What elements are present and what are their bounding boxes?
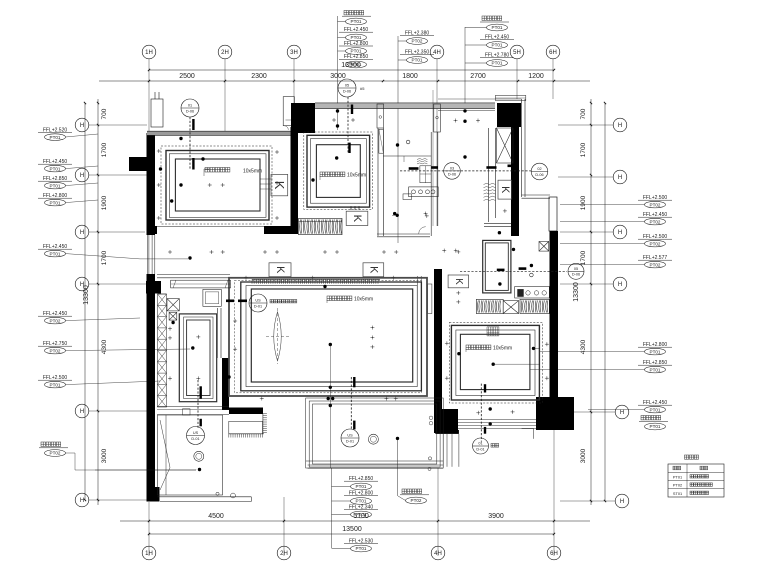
living room ceiling cove rect 1 bbox=[241, 282, 422, 391]
dining small x-box bbox=[169, 312, 177, 320]
balcony left wardrobe diagonal bbox=[160, 420, 170, 468]
bottom leader stack ceiling PT02 bbox=[397, 440, 399, 496]
svg-text:1700: 1700 bbox=[101, 142, 108, 157]
svg-text:1700: 1700 bbox=[580, 142, 587, 157]
svg-text:PT01: PT01 bbox=[50, 251, 61, 256]
wall dining right black strip bbox=[222, 358, 229, 410]
svg-text:1900: 1900 bbox=[101, 195, 108, 210]
grid bubble bottom 1 bbox=[142, 546, 156, 560]
grid bubble right E bbox=[615, 405, 629, 419]
entry outlined column bbox=[549, 197, 557, 231]
wall master bedroom left strip bbox=[291, 127, 299, 234]
svg-text:H: H bbox=[80, 173, 84, 179]
left leader stack FFL+2.850 bbox=[38, 176, 72, 189]
svg-text:PT02: PT02 bbox=[50, 318, 61, 323]
shaft x-brace box bbox=[497, 128, 514, 163]
entry steps bottom right quarter arc bbox=[522, 427, 534, 429]
top segment dimension line bbox=[99, 80, 590, 82]
svg-text:3000: 3000 bbox=[580, 448, 587, 463]
dining north wall bbox=[157, 274, 230, 276]
svg-text:PT01: PT01 bbox=[356, 499, 367, 504]
svg-text:PT01: PT01 bbox=[50, 183, 61, 188]
svg-text:K: K bbox=[351, 215, 363, 223]
svg-text:PT02: PT02 bbox=[50, 451, 61, 456]
balcony left boundary bbox=[158, 415, 223, 495]
downlights bedroom1 bbox=[179, 137, 182, 140]
svg-text:1H: 1H bbox=[145, 50, 153, 56]
svg-text:05: 05 bbox=[574, 267, 578, 271]
dining wardrobe counter bbox=[171, 280, 231, 288]
downlights balcony left bbox=[198, 468, 201, 471]
kitchen x-box vent right bbox=[539, 242, 549, 252]
svg-text:PT01: PT01 bbox=[356, 512, 367, 517]
downlight hall near dining bbox=[188, 256, 191, 259]
svg-text:PT02: PT02 bbox=[650, 202, 661, 207]
svg-text:10x5mm: 10x5mm bbox=[347, 173, 366, 179]
svg-text:PT01: PT01 bbox=[50, 382, 61, 387]
left leader stack ceiling PT02 bbox=[41, 442, 61, 446]
bedroom3 ceiling dashed outline bbox=[449, 322, 542, 403]
downlights bedroom3 bbox=[457, 352, 460, 355]
fan coil K box master bedroom bbox=[346, 211, 368, 225]
window band above kitchen corner bbox=[495, 95, 525, 100]
svg-text:01: 01 bbox=[188, 104, 192, 108]
svg-text:D-01: D-01 bbox=[476, 447, 484, 451]
squiggle hatches bathroom bbox=[417, 159, 427, 164]
right leader stack ceiling PT01 bbox=[641, 416, 661, 420]
bedroom3 ceiling inner panel bbox=[460, 334, 530, 389]
left overall dimension line 13300 bbox=[84, 103, 86, 500]
bath right door frame bbox=[434, 104, 441, 132]
sparkle hall row bbox=[323, 250, 327, 254]
svg-text:1800: 1800 bbox=[402, 73, 418, 80]
living room ceiling dashed line bbox=[235, 280, 422, 393]
dining ceiling inner panel bbox=[187, 320, 210, 396]
living room ceiling inner panel bbox=[251, 289, 412, 382]
grid bubble right C bbox=[613, 225, 627, 239]
wall corridor black foot bbox=[434, 409, 458, 433]
svg-text:2300: 2300 bbox=[251, 73, 267, 80]
balcony door step lines bbox=[435, 430, 459, 434]
wall right strip entry to bedroom3 bbox=[550, 231, 559, 397]
right leader stack FFL+2.577 bbox=[638, 255, 672, 268]
wall bathroom right double bbox=[430, 132, 432, 236]
grid bubble bottom 6 bbox=[547, 546, 561, 560]
top leader stack A ceiling PT01 / FFL+2.450 / FFL+2.800 / FFL+2.850 bbox=[337, 16, 339, 130]
balcony left double circle vent bbox=[194, 451, 204, 461]
svg-text:PT01: PT01 bbox=[50, 166, 61, 171]
bathroom partition line bbox=[383, 155, 431, 157]
vent coil band kitchen south with x-box bbox=[476, 299, 503, 313]
living room section marker US/D-01 with note bbox=[249, 294, 267, 312]
dining x-box column bbox=[167, 299, 179, 311]
svg-text:4H: 4H bbox=[434, 551, 442, 557]
svg-text:PT01: PT01 bbox=[492, 25, 503, 30]
svg-text:H: H bbox=[618, 175, 622, 181]
bedroom3 ceiling cove rect 1 bbox=[451, 325, 539, 400]
balcony center section marker US/D-01 bbox=[350, 377, 352, 430]
svg-text:PT01: PT01 bbox=[351, 35, 362, 40]
grid bubble top 1 bbox=[142, 45, 156, 59]
bedroom1 ceiling inner panel bbox=[175, 159, 260, 211]
sparkles bathroom bbox=[424, 212, 428, 216]
svg-text:K: K bbox=[499, 186, 511, 193]
master bedroom ceiling dashed outline bbox=[304, 132, 373, 210]
bedroom1 ceiling dashed outline bbox=[161, 146, 272, 224]
svg-text:3000: 3000 bbox=[330, 73, 346, 80]
right segment dimension line bbox=[590, 99, 592, 505]
svg-text:PT02: PT02 bbox=[50, 348, 61, 353]
glass door rect at balcony bbox=[229, 421, 263, 434]
comb grille balcony doorway horizontal bbox=[229, 434, 264, 438]
kitchen ceiling cove outer bbox=[483, 240, 511, 293]
svg-text:1700: 1700 bbox=[101, 250, 108, 265]
material table title bbox=[685, 455, 699, 459]
bathroom appliance box bbox=[420, 166, 431, 183]
svg-text:ST01: ST01 bbox=[673, 491, 682, 496]
left leader stack FFL+2.450 c bbox=[38, 311, 72, 324]
wall left strip upper bbox=[147, 133, 156, 235]
bottom overall dimension line 13500 bbox=[149, 533, 554, 535]
grid bubble bottom 2 bbox=[277, 546, 291, 560]
wall bedroom1 south bbox=[147, 226, 157, 234]
right leader stack FFL+2.450 b bbox=[638, 400, 672, 413]
fan coil K box corridor bbox=[448, 275, 469, 288]
svg-text:03: 03 bbox=[450, 167, 454, 171]
master bedroom ceiling cove rect 2 bbox=[310, 139, 366, 204]
svg-text:1H: 1H bbox=[145, 551, 153, 557]
svg-text:PT01: PT01 bbox=[650, 367, 661, 372]
wall shaft black strip right bbox=[511, 126, 519, 236]
svg-text:H: H bbox=[618, 282, 622, 288]
right leader stack FFL+2.850 bbox=[638, 360, 672, 373]
svg-text:H: H bbox=[80, 282, 84, 288]
bedroom1 label gypsum pull-brush 10x5mm bbox=[203, 169, 205, 176]
svg-text:2700: 2700 bbox=[470, 73, 486, 80]
grid line vertical through bathroom bbox=[432, 90, 434, 226]
left segment dimension line bbox=[97, 99, 99, 505]
wall corridor black strip to bedroom3 bbox=[434, 269, 442, 409]
svg-text:2500: 2500 bbox=[179, 73, 195, 80]
bottom segment dimension line bbox=[120, 520, 590, 522]
sparkle kitchen bbox=[456, 250, 460, 254]
sparkle wall washers bedroom1 bbox=[157, 149, 161, 153]
downlights living room bbox=[323, 285, 326, 288]
right leader stack FFL+2.450 bbox=[638, 212, 672, 225]
svg-text:D-06: D-06 bbox=[343, 89, 351, 93]
wall dining top-left black chunk bbox=[146, 281, 161, 294]
svg-text:PT01: PT01 bbox=[50, 200, 61, 205]
svg-text:10x5mm: 10x5mm bbox=[493, 346, 512, 352]
bedroom3 ceiling cove rect 2 bbox=[456, 330, 535, 396]
living room curtain comb on top border bbox=[252, 279, 380, 284]
wall top-left niche rect bbox=[151, 99, 163, 127]
svg-text:4300: 4300 bbox=[580, 339, 587, 354]
kitchen section line marker 05/D-06 right bbox=[460, 270, 567, 272]
svg-text:PT01: PT01 bbox=[650, 407, 661, 412]
svg-text:#5: #5 bbox=[360, 86, 365, 91]
left lattice grille strip bbox=[158, 294, 167, 407]
svg-text:PT01: PT01 bbox=[492, 61, 503, 66]
svg-text:1900: 1900 bbox=[580, 195, 587, 210]
grid bubble left E bbox=[75, 404, 89, 418]
svg-text:D-06: D-06 bbox=[572, 273, 580, 277]
dining ceiling cove rect 2 bbox=[184, 317, 213, 399]
svg-text:10x5mm: 10x5mm bbox=[354, 297, 373, 303]
svg-text:PT01: PT01 bbox=[356, 484, 367, 489]
small circle marks bbox=[231, 493, 236, 498]
kitchen ceiling inner panel bbox=[485, 243, 508, 291]
svg-text:PT01: PT01 bbox=[50, 135, 61, 140]
svg-text:K: K bbox=[274, 266, 286, 274]
bathroom small ceiling circle bbox=[406, 140, 410, 144]
master bedroom label gypsum pull-brush 10x5mm bbox=[319, 176, 321, 180]
bedroom1 ceiling cove rect 1 bbox=[166, 151, 269, 221]
wall south of masterbath corridor bbox=[484, 222, 511, 224]
svg-text:PT01: PT01 bbox=[492, 43, 503, 48]
sparkles bedroom3 bbox=[445, 341, 449, 345]
grid bubble left A bbox=[75, 118, 89, 132]
wall kitchen black box top right bbox=[497, 103, 521, 127]
downlights masterbath bbox=[463, 109, 466, 112]
svg-text:H: H bbox=[620, 410, 624, 416]
material table bbox=[668, 464, 724, 497]
kitchen sink counter bbox=[515, 287, 550, 299]
svg-text:02: 02 bbox=[537, 167, 541, 171]
right leader stack FFL+2.500 bbox=[638, 195, 672, 208]
svg-text:K: K bbox=[272, 181, 287, 190]
bedroom3 vent hatch grid bbox=[487, 327, 499, 336]
bottom extension lines bbox=[148, 502, 150, 556]
svg-text:PT01: PT01 bbox=[351, 49, 362, 54]
svg-text:PT01: PT01 bbox=[351, 19, 362, 24]
svg-text:PT02: PT02 bbox=[650, 241, 661, 246]
dining fridge box bbox=[203, 289, 221, 306]
wall bathroom left double bbox=[377, 128, 379, 236]
svg-text:PT01: PT01 bbox=[412, 58, 423, 63]
svg-text:H: H bbox=[80, 498, 84, 504]
living room chandelier vesica bbox=[266, 308, 289, 364]
downlights kitchen bbox=[498, 231, 501, 234]
wall black horizontal south of dining bbox=[229, 408, 263, 415]
grid bubble right D bbox=[613, 277, 627, 291]
living room label gypsum pull-brush 10x5mm bbox=[326, 300, 328, 303]
dining south wall band bbox=[157, 405, 229, 407]
grid bubble bottom 4 bbox=[431, 546, 445, 560]
fan coil K box bedroom1 bbox=[271, 174, 288, 195]
svg-text:PT02: PT02 bbox=[412, 39, 423, 44]
svg-text:05: 05 bbox=[345, 84, 349, 88]
wall bottom-right big chunk bbox=[536, 397, 574, 430]
svg-text:6H: 6H bbox=[549, 50, 557, 56]
bedroom3 section marker 01/D-01 laundry bbox=[480, 384, 482, 442]
master bedroom section marker 05/D-06 bbox=[338, 79, 356, 97]
squiggle hatches left of kitchen K box bbox=[484, 183, 496, 200]
downlights master bedroom bbox=[336, 109, 339, 112]
svg-text:13300: 13300 bbox=[573, 282, 580, 302]
svg-text:H: H bbox=[620, 499, 624, 505]
right overall dimension line 13300 bbox=[604, 103, 606, 501]
bathroom vanity counter with basins bbox=[409, 187, 439, 197]
balcony left bottom edge lines bbox=[158, 496, 252, 498]
grid bubble right B bbox=[613, 170, 627, 184]
svg-text:D-06: D-06 bbox=[186, 109, 194, 113]
wall bedroom3 doorway lines bbox=[458, 419, 536, 421]
living room ceiling outer boundary bbox=[229, 278, 427, 396]
svg-text:10x5mm: 10x5mm bbox=[243, 169, 262, 175]
grid bubble left D bbox=[75, 277, 89, 291]
leader line from balcony dot to left stack bbox=[95, 469, 196, 471]
top leader stack B FFL+2.380 / FFL+2.350 bbox=[397, 36, 399, 243]
building right edge double line bbox=[521, 99, 523, 197]
bedroom1 curtain section marker 01/D-06 bbox=[181, 99, 199, 117]
top leader stack C ceiling PT01 / FFL+2.450 / FFL+2.780 bbox=[464, 27, 466, 105]
balcony center double circle vent bbox=[368, 434, 378, 444]
bedroom1 ceiling cove rect 2 bbox=[169, 154, 266, 218]
grid bubble right F bbox=[615, 494, 629, 508]
left leader stack FFL+2.800 bbox=[38, 193, 72, 206]
svg-text:US: US bbox=[347, 434, 353, 438]
svg-text:700: 700 bbox=[580, 108, 587, 119]
downlights balcony center bbox=[396, 437, 399, 440]
grid bubble left F bbox=[75, 493, 89, 507]
svg-text:13500: 13500 bbox=[342, 526, 362, 533]
svg-text:H: H bbox=[618, 230, 622, 236]
grid bubble top 4 bbox=[430, 45, 444, 59]
master bedroom ceiling inner panel bbox=[316, 145, 360, 198]
svg-text:PT01: PT01 bbox=[650, 349, 661, 354]
svg-text:H: H bbox=[80, 123, 84, 129]
wall bedroom1 south right part bbox=[264, 226, 298, 234]
grid bubble left C bbox=[75, 225, 89, 239]
svg-text:1200: 1200 bbox=[528, 73, 544, 80]
svg-text:6H: 6H bbox=[550, 551, 558, 557]
svg-text:PT02: PT02 bbox=[650, 219, 661, 224]
right leader stack FFL+2.800 bbox=[638, 342, 672, 355]
svg-text:H: H bbox=[80, 230, 84, 236]
svg-text:H: H bbox=[618, 123, 622, 129]
svg-text:4H: 4H bbox=[433, 50, 441, 56]
top grid line extensions bbox=[148, 59, 150, 131]
left leader stack FFL+2.520 bbox=[38, 128, 72, 141]
svg-text:2H: 2H bbox=[221, 50, 229, 56]
grid bubble left B bbox=[75, 168, 89, 182]
sparkles living room bbox=[370, 326, 374, 330]
bedroom3 label gypsum pull-brush 10x5mm bbox=[465, 349, 467, 352]
bottom leader stack FFL+2.850/2.800/2.340 and FFL+2.530 bbox=[331, 468, 333, 548]
wall masterbath right double bbox=[488, 128, 490, 222]
svg-text:PT02: PT02 bbox=[673, 483, 682, 488]
living room doorway strip bbox=[428, 284, 432, 314]
left leader stack FFL+2.450 bbox=[38, 159, 72, 172]
svg-text:D-06: D-06 bbox=[448, 172, 456, 176]
wall left stub to neighbour bbox=[129, 157, 155, 171]
svg-text:US: US bbox=[193, 431, 199, 435]
downlights bathroom bbox=[396, 143, 399, 146]
wall left foot bbox=[147, 487, 160, 502]
grid bubble top 6 bbox=[546, 45, 560, 59]
fan coil K box hall left bbox=[269, 263, 291, 277]
svg-text:2H: 2H bbox=[280, 551, 288, 557]
svg-text:3000: 3000 bbox=[101, 448, 108, 463]
kitchen small ceiling circle bbox=[530, 273, 534, 277]
balcony left section marker US/D-01 bbox=[197, 380, 199, 428]
living room ceiling cove rect 2 bbox=[246, 286, 417, 387]
svg-text:PT01: PT01 bbox=[351, 62, 362, 67]
svg-text:4300: 4300 bbox=[101, 339, 108, 354]
wall top of bedroom1 gray band bbox=[147, 132, 291, 136]
svg-text:K: K bbox=[367, 266, 379, 274]
grid bubble top 2 bbox=[218, 45, 232, 59]
fan coil K box living room top bbox=[363, 263, 384, 277]
svg-text:PT02: PT02 bbox=[411, 498, 422, 503]
svg-text:5H: 5H bbox=[513, 50, 521, 56]
grid bubble top 3 bbox=[287, 45, 301, 59]
svg-text:D-01: D-01 bbox=[346, 439, 354, 443]
wall dining partition double bbox=[216, 308, 218, 358]
wall left strip lower bbox=[147, 274, 156, 488]
svg-text:3H: 3H bbox=[290, 50, 298, 56]
downlights dining bbox=[191, 346, 194, 349]
svg-text:700: 700 bbox=[101, 108, 108, 119]
window left upper bbox=[146, 235, 148, 274]
svg-text:D-01: D-01 bbox=[191, 437, 199, 441]
svg-text:01: 01 bbox=[478, 442, 482, 446]
sparkle corridor pair bbox=[456, 291, 460, 295]
bathroom section line markers 03/D-06 and 02/D-06 bbox=[400, 170, 531, 172]
svg-text:1700: 1700 bbox=[580, 250, 587, 265]
svg-text:3900: 3900 bbox=[488, 513, 504, 520]
balcony center inner line bbox=[313, 404, 437, 464]
door frame niche between bedrooms bbox=[283, 97, 294, 126]
comb grille balcony doorway vertical bbox=[263, 414, 267, 434]
wall column master bedroom top-left bbox=[291, 103, 315, 128]
vent coil band master bedroom south bbox=[299, 218, 343, 234]
wall south of bath rooms bbox=[377, 233, 430, 235]
left leader stack FFL+2.500 bbox=[38, 375, 72, 388]
sparkles bedroom1 south hall bbox=[168, 250, 172, 254]
balcony center boundary bbox=[306, 398, 444, 468]
wall top band master/bath/kitchen gray bbox=[315, 103, 495, 108]
svg-text:PT01: PT01 bbox=[650, 424, 661, 429]
left leader stack FFL+2.750 bbox=[38, 341, 72, 354]
left leader stack FFL+2.450 b bbox=[38, 244, 72, 257]
svg-text:H: H bbox=[80, 409, 84, 415]
grid bubble top 5 bbox=[510, 45, 524, 59]
grid bubble right A bbox=[613, 118, 627, 132]
svg-text:PT01: PT01 bbox=[673, 475, 682, 480]
svg-text:PT02: PT02 bbox=[650, 262, 661, 267]
svg-text:US: US bbox=[255, 299, 261, 303]
bathroom tub bbox=[379, 129, 384, 153]
right leader stack FFL+2.500 b bbox=[638, 234, 672, 247]
dining ceiling cove rect 1 bbox=[179, 314, 216, 402]
sparkles dining lattice bbox=[168, 327, 172, 331]
svg-text:K: K bbox=[453, 278, 464, 285]
svg-text:4500: 4500 bbox=[208, 513, 224, 520]
fan coil K box kitchen top bbox=[498, 180, 512, 199]
building edge step to entry bbox=[522, 194, 551, 196]
top overall dimension line 13500 bbox=[149, 69, 554, 71]
bath left door frame bbox=[377, 104, 384, 128]
svg-text:PT01: PT01 bbox=[356, 546, 367, 551]
svg-text:D-01: D-01 bbox=[254, 304, 262, 308]
svg-text:D-06: D-06 bbox=[535, 173, 543, 177]
balcony center bottom edge lines bbox=[306, 460, 444, 462]
master bedroom ceiling cove rect 1 bbox=[307, 135, 370, 207]
